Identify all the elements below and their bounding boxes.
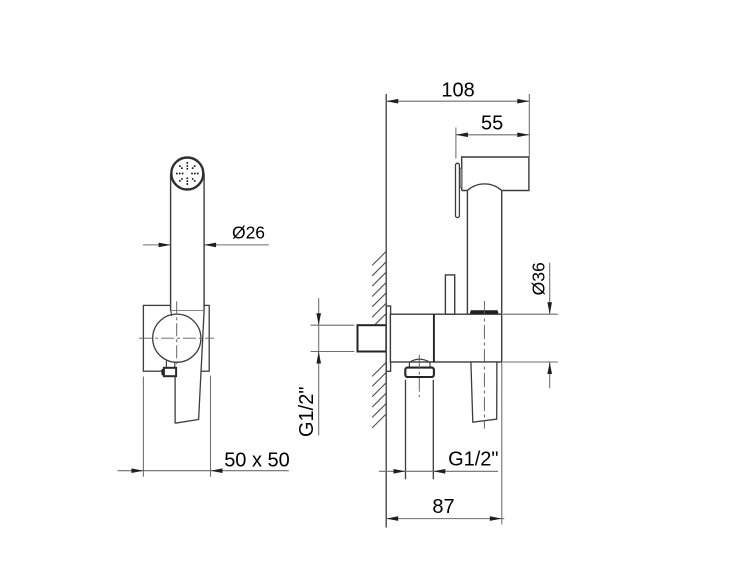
seal band at tube base [470, 310, 499, 313]
spray face plate (side view) [456, 163, 460, 217]
dimension D26 (front view) [143, 223, 269, 248]
holder ring (front view) [153, 314, 201, 362]
svg-text:87: 87 [432, 496, 454, 518]
svg-text:G1/2": G1/2" [296, 387, 318, 437]
center line: hose outlet [418, 355, 420, 397]
supply pipe stub through wall [358, 325, 387, 351]
dimension D36 [503, 262, 558, 388]
dimension 55 [456, 112, 529, 158]
head neck strip (side view) [459, 168, 462, 188]
sprayer handle taper (front view) [171, 311, 204, 423]
knob on bracket top [445, 275, 454, 314]
shower head body (side view) [462, 157, 529, 191]
hose connector nut [405, 359, 434, 377]
shower head (front view) [170, 157, 204, 191]
center line: handle (side view) [483, 301, 485, 429]
dimension G1/2 (supply pipe) [296, 298, 354, 437]
dimension 87 [386, 363, 504, 525]
hose outlet [406, 380, 434, 480]
sprayer handle below bracket (side view) [471, 362, 497, 422]
svg-text:G1/2": G1/2" [448, 449, 498, 471]
svg-text:50 x 50: 50 x 50 [224, 450, 290, 472]
svg-text:108: 108 [441, 79, 474, 101]
holder bracket body (side view) [390, 314, 501, 362]
hand shower tube (front view) [171, 172, 205, 311]
center lines (front view) [139, 337, 214, 339]
nozzle holes [186, 168, 188, 170]
dimension G1/2 (hose outlet) [379, 449, 499, 474]
wall plate 50x50 (front view) [143, 305, 209, 371]
clamp screw (front view) [161, 361, 176, 376]
svg-text:Ø36: Ø36 [528, 262, 548, 295]
wall hatching [372, 251, 386, 428]
wall escutcheon plate [386, 306, 390, 371]
svg-text:55: 55 [481, 112, 503, 134]
dimension 108 [386, 79, 529, 157]
handle taper nib at tube base (front view) [170, 311, 173, 316]
svg-text:Ø26: Ø26 [232, 223, 265, 243]
hand shower tube (side view) [467, 184, 501, 314]
handle left edge below clamp (front view) [174, 376, 176, 423]
dimension 50 x 50 (front view) [118, 376, 290, 477]
wall line [385, 94, 387, 528]
